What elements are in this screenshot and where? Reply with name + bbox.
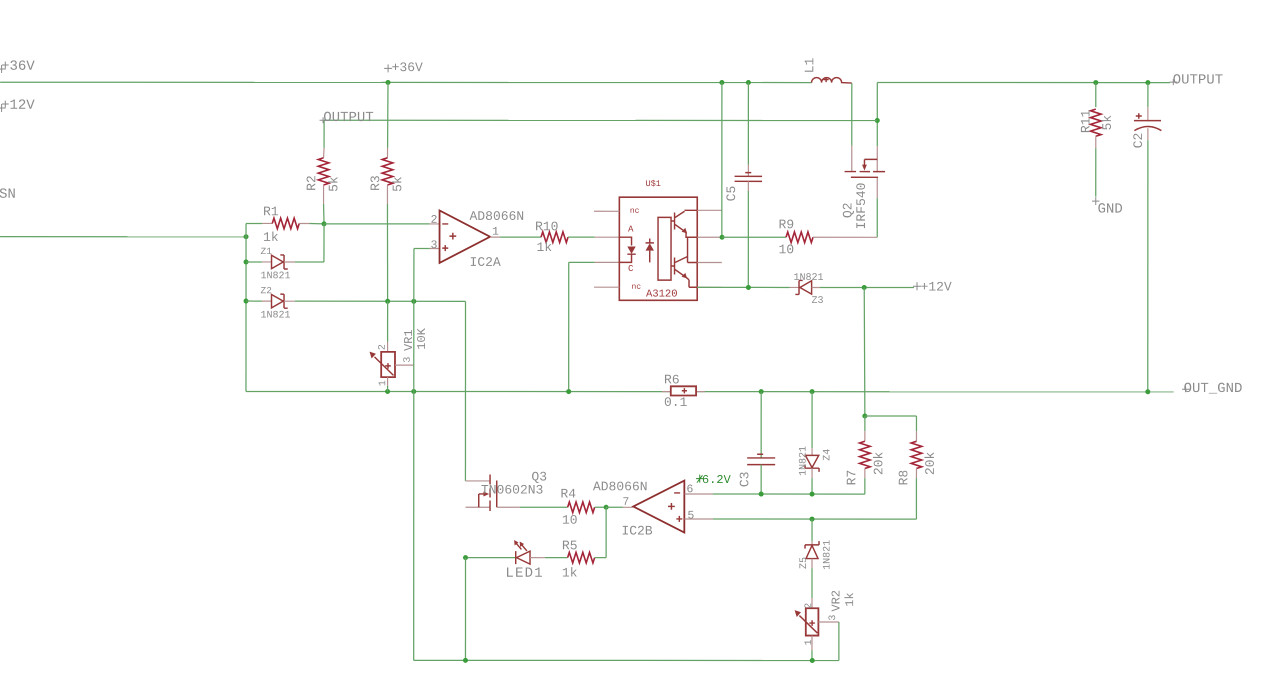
capacitor C3 <box>760 392 762 458</box>
label L1 <box>805 58 814 72</box>
wire x722 vertical <box>721 83 723 238</box>
opto amplifier block <box>658 217 671 280</box>
opto input LED <box>619 237 631 262</box>
net label 6.2V <box>696 475 704 483</box>
node junction rail x387.6 <box>385 389 390 394</box>
opto output transistor top <box>671 213 675 230</box>
wire LED row <box>466 557 516 559</box>
node junction bottom x465.6 <box>463 658 468 663</box>
node junction x864.9 y416 <box>862 413 867 418</box>
opto mid stub <box>688 262 698 264</box>
wire +36V rail <box>0 81 811 83</box>
pin nc top <box>594 210 619 212</box>
wire Q2 gate link <box>876 198 878 237</box>
op-amp IC2A <box>440 210 491 263</box>
wire x864.9 vertical <box>863 287 866 416</box>
node junction x722 top <box>719 80 724 85</box>
wire R8 branch <box>865 415 917 417</box>
supply +36V left <box>0 65 6 73</box>
pin number 1 <box>493 227 499 235</box>
node junction C3 bottom <box>759 492 764 497</box>
node junction rail x413.8 <box>411 389 416 394</box>
wire Q2 source vertical <box>876 82 878 146</box>
wire R5 to pin7 <box>605 507 607 557</box>
node OUTPUT junction x877 <box>875 118 880 123</box>
supply +36V mid <box>384 64 392 72</box>
wire bottom rail <box>464 558 466 661</box>
potentiometer VR2 <box>811 598 813 608</box>
net label SN <box>0 188 15 198</box>
diode Z3 <box>790 286 800 288</box>
inductor L1 <box>812 78 852 84</box>
optocoupler U$1 body <box>619 197 697 300</box>
wire left vertical x246 <box>245 223 247 391</box>
capacitor C5 <box>747 83 749 165</box>
wire OUT_GND rail <box>246 390 671 392</box>
node junction rail x568.7 <box>566 389 571 394</box>
resistor R6 <box>662 391 671 393</box>
wire SN input <box>0 236 246 238</box>
node junction rail x761.2 <box>759 389 764 394</box>
node junction rail x812.1 <box>810 389 815 394</box>
wire VR1 pin2 link <box>387 301 389 342</box>
node junction x606 y507 <box>604 505 609 510</box>
diode Z5 <box>810 517 815 522</box>
node junction R11 top <box>1093 80 1098 85</box>
wire OUTPUT mid line <box>324 119 877 121</box>
label OUTPUT left <box>320 117 328 123</box>
diode Z2 <box>244 299 249 304</box>
opto VCC stub <box>697 209 722 211</box>
node junction R1/R2 x324 <box>322 221 327 226</box>
diode Z1 <box>244 259 249 264</box>
pin C <box>629 265 634 271</box>
node +36V junction at x388 <box>386 80 391 85</box>
wire Z2 to Q3 drain <box>464 301 466 481</box>
node junction x246 y237 <box>244 234 249 239</box>
transistor Q2 IRF540 <box>851 83 853 145</box>
LED LED1 <box>515 551 517 564</box>
node junction C2 top <box>1145 80 1150 85</box>
wire +12V row <box>697 286 789 288</box>
pin A <box>628 226 633 232</box>
diode Z4 <box>811 392 813 448</box>
resistor R3 <box>387 83 389 148</box>
opto VO stub <box>697 236 722 238</box>
opto clamp diode <box>649 239 651 263</box>
pin number 7 <box>623 497 628 505</box>
wire pin5 row <box>713 518 916 520</box>
supply +12V right <box>913 282 921 290</box>
node junction x748 top <box>746 80 751 85</box>
pin nc bottom <box>594 286 619 288</box>
supply GND <box>1092 197 1099 205</box>
node junction bottom x812.7 <box>810 658 815 663</box>
resistor R7 <box>864 416 866 431</box>
pin number 2 <box>431 215 436 223</box>
potentiometer VR1 <box>387 342 389 352</box>
node junction x748.5 y287 <box>746 285 751 290</box>
opto output transistor bottom <box>671 258 675 275</box>
node junction Z4 bottom <box>810 492 815 497</box>
wire C-pin link <box>568 262 570 391</box>
label OUTPUT right <box>1170 79 1178 85</box>
resistor R10 <box>490 236 500 238</box>
transistor Q3 <box>465 480 490 482</box>
resistor R5 <box>530 557 545 559</box>
label OUT_GND <box>1182 386 1190 392</box>
wire x413.8 vertical <box>413 301 415 660</box>
node junction x413.8 y301 <box>411 299 416 304</box>
capacitor C2 <box>1147 83 1149 108</box>
node junction rail x1147.8 <box>1145 389 1150 394</box>
node junction LED row x465.6 <box>463 555 468 560</box>
op-amp IC2B <box>606 506 623 508</box>
resistor R4 <box>520 506 568 508</box>
pin number 6 <box>687 485 692 493</box>
node junction x722 y237 <box>720 235 725 240</box>
resistor R9 <box>722 236 786 238</box>
resistor R2 <box>323 148 326 158</box>
wire pin3 link <box>414 248 430 250</box>
pin number 3 <box>431 240 437 248</box>
pin6 stub <box>685 493 713 495</box>
wire pin2 row <box>324 223 430 225</box>
wire OUTPUT right rail <box>877 81 1170 83</box>
opto VEE stub <box>697 286 722 288</box>
node junction x864 y287 <box>862 285 867 290</box>
wire 6.2V row <box>713 493 865 495</box>
node junction x387.6 y301 <box>385 299 390 304</box>
pin number 5 <box>688 511 694 519</box>
pin5 stub <box>685 518 713 520</box>
resistor R1 <box>262 222 272 224</box>
wire R1 row <box>246 222 262 224</box>
resistor R8 <box>915 416 917 431</box>
supply +12V left <box>0 104 6 112</box>
resistor R11 <box>1095 83 1097 108</box>
